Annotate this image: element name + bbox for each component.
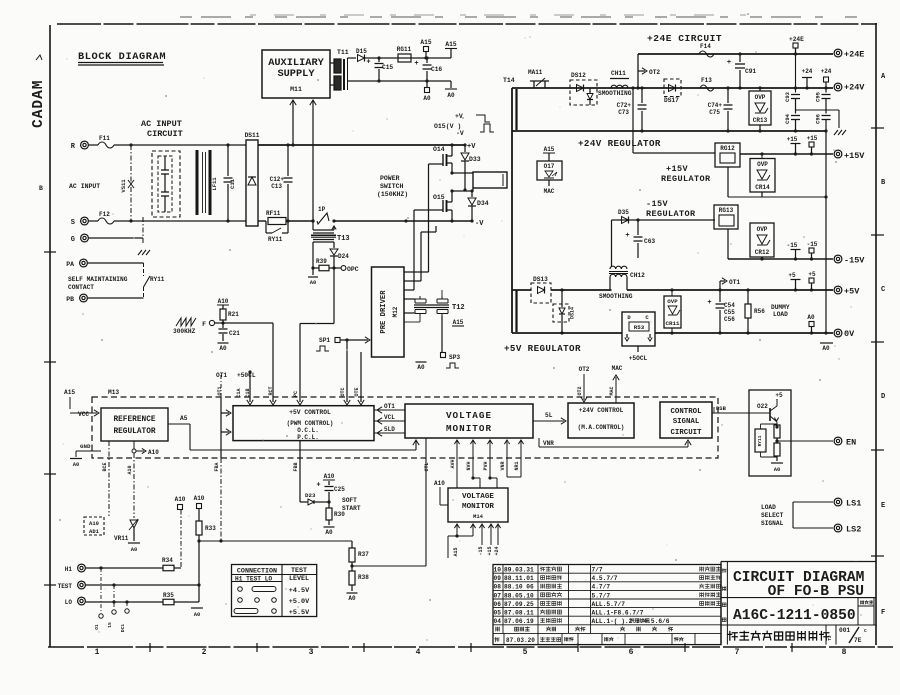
svg-text:A0: A0 bbox=[807, 314, 815, 321]
svg-text:DUMMY: DUMMY bbox=[771, 304, 790, 311]
svg-text:CONTROL: CONTROL bbox=[670, 408, 702, 416]
svg-text:H1: H1 bbox=[65, 566, 73, 573]
svg-text:A15: A15 bbox=[544, 146, 555, 153]
svg-text:OT1: OT1 bbox=[217, 386, 223, 395]
svg-text:+15: +15 bbox=[487, 546, 493, 555]
svg-text:+15: +15 bbox=[807, 135, 818, 142]
svg-text:+5: +5 bbox=[808, 271, 816, 278]
svg-text:AVH: AVH bbox=[450, 459, 456, 468]
svg-text:A0: A0 bbox=[774, 466, 781, 473]
svg-text:+24E CIRCUIT: +24E CIRCUIT bbox=[647, 33, 722, 44]
svg-text:A0: A0 bbox=[447, 92, 455, 99]
svg-text:AD1: AD1 bbox=[89, 528, 100, 535]
svg-text:C75: C75 bbox=[709, 109, 720, 116]
svg-text:LEVEL: LEVEL bbox=[289, 575, 309, 583]
svg-text:LOAD: LOAD bbox=[773, 311, 788, 318]
svg-text:O17: O17 bbox=[544, 163, 555, 170]
svg-text:C15: C15 bbox=[382, 64, 393, 71]
svg-text:D34: D34 bbox=[477, 200, 489, 207]
svg-text:OTC: OTC bbox=[340, 387, 346, 396]
svg-text:LO: LO bbox=[65, 599, 73, 606]
svg-text:VCL: VCL bbox=[384, 414, 395, 421]
svg-text:R37: R37 bbox=[358, 551, 369, 558]
svg-text:OT2: OT2 bbox=[579, 366, 590, 373]
svg-text:RG13: RG13 bbox=[719, 207, 734, 214]
svg-text:04: 04 bbox=[494, 618, 502, 625]
svg-text:R56: R56 bbox=[754, 308, 765, 315]
svg-text:CR13: CR13 bbox=[753, 117, 768, 124]
svg-text:6: 6 bbox=[629, 648, 634, 657]
svg-text:(150KHZ): (150KHZ) bbox=[377, 191, 408, 198]
svg-text:NVH: NVH bbox=[466, 461, 472, 470]
svg-text:C12+: C12+ bbox=[270, 176, 285, 183]
svg-text:FBB: FBB bbox=[293, 462, 299, 471]
svg-text:FBA: FBA bbox=[214, 462, 220, 471]
svg-text:B: B bbox=[881, 179, 886, 187]
svg-text:TEST: TEST bbox=[291, 567, 307, 575]
svg-text:A15: A15 bbox=[64, 389, 75, 396]
svg-text:A0: A0 bbox=[310, 279, 317, 286]
svg-text:E: E bbox=[881, 502, 885, 510]
svg-text:A10: A10 bbox=[434, 480, 445, 487]
svg-text:C16: C16 bbox=[431, 66, 442, 73]
svg-text:C91: C91 bbox=[745, 68, 756, 75]
svg-text:A10: A10 bbox=[148, 449, 159, 456]
svg-text:ALL.1-F8.6.7/7: ALL.1-F8.6.7/7 bbox=[592, 610, 644, 617]
svg-text:A15: A15 bbox=[420, 39, 431, 46]
svg-text:C73: C73 bbox=[618, 109, 629, 116]
svg-text:R: R bbox=[71, 143, 76, 151]
svg-text:87.08.11: 87.08.11 bbox=[504, 610, 534, 617]
svg-text:5: 5 bbox=[523, 648, 528, 657]
svg-text:A15: A15 bbox=[453, 319, 464, 326]
svg-text:DS17: DS17 bbox=[664, 97, 679, 104]
svg-text:+5OCL: +5OCL bbox=[629, 355, 648, 362]
svg-text:D15: D15 bbox=[356, 48, 367, 55]
svg-text:87.06.19: 87.06.19 bbox=[504, 618, 534, 625]
svg-text:F14: F14 bbox=[700, 43, 711, 50]
svg-text:R30: R30 bbox=[334, 511, 345, 518]
svg-text:MAC: MAC bbox=[544, 188, 555, 195]
svg-text:PRE DRIVER: PRE DRIVER bbox=[380, 290, 388, 334]
svg-text:SMOOTHING: SMOOTHING bbox=[599, 293, 633, 300]
svg-text:CTL: CTL bbox=[424, 462, 430, 471]
svg-text:+24: +24 bbox=[821, 68, 832, 75]
svg-text:A0: A0 bbox=[348, 595, 356, 602]
svg-text:SELF MAINTAINING: SELF MAINTAINING bbox=[68, 276, 128, 283]
svg-text:OVP: OVP bbox=[755, 94, 766, 101]
svg-text:A0: A0 bbox=[219, 345, 227, 352]
svg-text:F: F bbox=[202, 321, 206, 328]
svg-text:+5V: +5V bbox=[844, 287, 860, 297]
svg-text:A0: A0 bbox=[417, 364, 425, 371]
svg-text:SP1: SP1 bbox=[319, 337, 330, 344]
svg-text:C96: C96 bbox=[815, 114, 822, 124]
svg-text:G: G bbox=[71, 236, 75, 244]
svg-text:M14: M14 bbox=[473, 513, 484, 520]
svg-text:TEST: TEST bbox=[58, 583, 73, 590]
svg-text:R39: R39 bbox=[316, 258, 327, 265]
svg-text:+: + bbox=[414, 60, 418, 68]
svg-text:+15V: +15V bbox=[666, 164, 689, 174]
svg-text:88.05.10: 88.05.10 bbox=[504, 592, 534, 599]
svg-text:H1 TEST LO: H1 TEST LO bbox=[235, 576, 272, 583]
svg-text:A0: A0 bbox=[131, 546, 138, 553]
svg-text:+: + bbox=[625, 232, 629, 240]
svg-text:CIRCUIT: CIRCUIT bbox=[147, 129, 183, 139]
svg-text:F: F bbox=[881, 609, 885, 617]
svg-text:09: 09 bbox=[494, 575, 502, 582]
svg-text:D: D bbox=[881, 393, 885, 401]
svg-text:D33: D33 bbox=[469, 156, 481, 163]
svg-text:+5.0V: +5.0V bbox=[289, 598, 310, 606]
svg-text:0V: 0V bbox=[844, 329, 855, 339]
svg-text:O15(V ): O15(V ) bbox=[434, 123, 461, 130]
svg-text:ALL.5.7/7: ALL.5.7/7 bbox=[592, 601, 626, 608]
svg-text:SMOOTHING: SMOOTHING bbox=[598, 90, 632, 97]
svg-text:DS12: DS12 bbox=[571, 72, 586, 79]
svg-text:AC INPUT: AC INPUT bbox=[69, 183, 100, 190]
svg-text:4.5.7/7: 4.5.7/7 bbox=[592, 575, 618, 582]
svg-text:START: START bbox=[342, 505, 361, 512]
svg-text:+V: +V bbox=[455, 113, 463, 120]
svg-text:RG11: RG11 bbox=[397, 46, 412, 53]
svg-text:O.C.L.: O.C.L. bbox=[297, 427, 319, 434]
svg-text:-15: -15 bbox=[787, 242, 798, 249]
svg-text:06: 06 bbox=[494, 601, 502, 608]
svg-text:+4.5V: +4.5V bbox=[289, 587, 310, 595]
svg-text:8: 8 bbox=[842, 648, 847, 657]
svg-text:+24: +24 bbox=[494, 546, 500, 555]
svg-text:BLOCK DIAGRAM: BLOCK DIAGRAM bbox=[78, 51, 166, 63]
svg-text:(M.A.CONTROL): (M.A.CONTROL) bbox=[578, 424, 625, 431]
svg-text:C1A: C1A bbox=[236, 388, 242, 397]
svg-text:+5V REGULATOR: +5V REGULATOR bbox=[504, 343, 581, 354]
svg-text:C: C bbox=[864, 628, 867, 634]
svg-text:CADAM: CADAM bbox=[31, 79, 47, 128]
svg-text:SIGNAL: SIGNAL bbox=[761, 520, 784, 527]
svg-text:+24V REGULATOR: +24V REGULATOR bbox=[578, 138, 661, 149]
svg-text:C63: C63 bbox=[644, 238, 655, 245]
svg-text:T13: T13 bbox=[337, 235, 350, 243]
svg-text:A16C-1211-0850: A16C-1211-0850 bbox=[733, 608, 856, 624]
svg-text:LF11: LF11 bbox=[211, 177, 218, 191]
svg-text:D23: D23 bbox=[305, 492, 316, 499]
svg-text:POWER: POWER bbox=[380, 175, 400, 182]
svg-text:GND: GND bbox=[80, 443, 91, 450]
svg-text:10: 10 bbox=[494, 567, 502, 574]
svg-text:A10: A10 bbox=[89, 520, 99, 527]
svg-text:C55: C55 bbox=[724, 309, 735, 316]
svg-text:B: B bbox=[39, 185, 43, 192]
svg-text:DS14: DS14 bbox=[570, 307, 576, 319]
svg-text:C: C bbox=[881, 286, 885, 294]
svg-text:O1: O1 bbox=[94, 624, 100, 630]
svg-text:C21: C21 bbox=[229, 330, 240, 337]
svg-text:C56: C56 bbox=[724, 316, 735, 323]
svg-text:A10: A10 bbox=[218, 298, 229, 305]
svg-text:F11: F11 bbox=[99, 135, 110, 142]
svg-text:-V: -V bbox=[475, 220, 484, 228]
svg-text:RY11: RY11 bbox=[757, 435, 763, 446]
svg-text:SUPPLY: SUPPLY bbox=[277, 68, 315, 80]
svg-text:T14: T14 bbox=[503, 77, 515, 84]
svg-text:C93: C93 bbox=[784, 91, 791, 102]
svg-text:C25: C25 bbox=[334, 486, 345, 493]
svg-text:MA11: MA11 bbox=[528, 69, 543, 76]
svg-text:REGULATOR: REGULATOR bbox=[113, 428, 155, 436]
svg-text:M12: M12 bbox=[392, 306, 399, 317]
svg-text:REFERENCE: REFERENCE bbox=[113, 416, 155, 424]
svg-text:CH11: CH11 bbox=[611, 70, 626, 77]
svg-text:OPC: OPC bbox=[347, 266, 359, 273]
svg-text:D35: D35 bbox=[618, 209, 629, 216]
svg-text:C74+: C74+ bbox=[708, 102, 723, 109]
svg-text:87.09.25: 87.09.25 bbox=[504, 601, 534, 608]
svg-text:1P: 1P bbox=[318, 206, 326, 213]
svg-text:SP3: SP3 bbox=[449, 354, 460, 361]
svg-text:5.7/7: 5.7/7 bbox=[592, 592, 611, 599]
svg-text:AC INPUT: AC INPUT bbox=[141, 119, 182, 129]
svg-text:SOFT: SOFT bbox=[342, 497, 357, 504]
svg-text:07: 07 bbox=[494, 592, 502, 599]
svg-text:MONITOR: MONITOR bbox=[462, 503, 494, 511]
svg-text:VCC: VCC bbox=[78, 411, 89, 418]
svg-text:DS13: DS13 bbox=[533, 276, 548, 283]
svg-text:C11: C11 bbox=[229, 178, 236, 189]
svg-text:+15: +15 bbox=[787, 136, 798, 143]
svg-text:VOLTAGE: VOLTAGE bbox=[446, 410, 492, 421]
svg-text:7/7: 7/7 bbox=[592, 567, 603, 574]
svg-text:F13: F13 bbox=[701, 77, 712, 84]
svg-text:MAC: MAC bbox=[612, 365, 623, 372]
svg-text:C54: C54 bbox=[724, 302, 735, 309]
svg-text:+: + bbox=[316, 482, 320, 490]
svg-text:87.03.20: 87.03.20 bbox=[506, 637, 535, 644]
svg-text:OT1: OT1 bbox=[216, 372, 227, 379]
svg-text:R34: R34 bbox=[162, 557, 173, 564]
svg-text:R21: R21 bbox=[228, 311, 239, 318]
svg-text:VNR: VNR bbox=[543, 440, 554, 447]
svg-text:+5.5V: +5.5V bbox=[289, 609, 310, 617]
svg-text:DC1: DC1 bbox=[120, 624, 126, 632]
svg-text:+5: +5 bbox=[788, 272, 796, 279]
svg-text:+5V CONTROL: +5V CONTROL bbox=[289, 409, 331, 416]
svg-text:08: 08 bbox=[494, 584, 502, 591]
svg-text:OT1: OT1 bbox=[729, 279, 740, 286]
svg-text:C94: C94 bbox=[784, 113, 791, 124]
svg-text:A0: A0 bbox=[822, 345, 830, 352]
svg-text:T12: T12 bbox=[452, 304, 465, 312]
svg-text:DS11: DS11 bbox=[245, 132, 260, 139]
svg-text:RG12: RG12 bbox=[720, 145, 735, 152]
svg-text:VR11: VR11 bbox=[114, 535, 129, 542]
svg-text:S: S bbox=[71, 219, 75, 227]
svg-text:RY11: RY11 bbox=[268, 236, 283, 243]
svg-text:-15V: -15V bbox=[646, 199, 669, 209]
svg-text:OT2: OT2 bbox=[577, 386, 583, 395]
svg-text:A10: A10 bbox=[127, 465, 133, 474]
svg-text:7: 7 bbox=[735, 648, 740, 657]
svg-text:A15: A15 bbox=[453, 547, 459, 556]
svg-text:R33: R33 bbox=[205, 525, 216, 532]
svg-text:A0: A0 bbox=[194, 611, 201, 618]
svg-text:REGULATOR: REGULATOR bbox=[661, 174, 711, 184]
svg-text:+15V: +15V bbox=[844, 151, 865, 161]
svg-text:+50CL: +50CL bbox=[237, 372, 256, 379]
svg-text:D: D bbox=[627, 314, 631, 321]
svg-text:+24V CONTROL: +24V CONTROL bbox=[579, 407, 624, 414]
svg-text:OF FO-B PSU: OF FO-B PSU bbox=[768, 584, 864, 600]
svg-text:R38: R38 bbox=[358, 574, 369, 581]
svg-text:CIRCUIT: CIRCUIT bbox=[670, 429, 702, 437]
svg-text:89.03.31: 89.03.31 bbox=[504, 567, 534, 574]
svg-text:MAC: MAC bbox=[609, 386, 615, 395]
svg-text:NR1: NR1 bbox=[514, 461, 520, 470]
svg-text:+: + bbox=[366, 59, 370, 67]
svg-text:C95: C95 bbox=[815, 91, 822, 102]
svg-text:PA: PA bbox=[66, 261, 74, 268]
svg-text:REGULATOR: REGULATOR bbox=[646, 209, 696, 219]
svg-text:TJ: TJ bbox=[827, 635, 833, 641]
svg-text:A0: A0 bbox=[73, 461, 80, 468]
svg-text:OVP: OVP bbox=[757, 161, 768, 168]
svg-text:300KHZ: 300KHZ bbox=[173, 328, 196, 335]
svg-text:OTE: OTE bbox=[354, 387, 360, 396]
svg-text:A0: A0 bbox=[423, 95, 431, 102]
svg-text:+V: +V bbox=[467, 143, 476, 151]
svg-text:OT2: OT2 bbox=[649, 69, 660, 76]
svg-text:R35: R35 bbox=[163, 592, 174, 599]
svg-text:SIGNAL: SIGNAL bbox=[673, 418, 700, 426]
svg-text:OVP: OVP bbox=[667, 298, 678, 305]
svg-text:+24V: +24V bbox=[844, 83, 865, 93]
svg-text:OT1: OT1 bbox=[384, 403, 395, 410]
svg-text:O15: O15 bbox=[433, 194, 445, 201]
svg-text:2: 2 bbox=[202, 648, 207, 657]
svg-text:LS1: LS1 bbox=[846, 499, 861, 509]
svg-text:P.C.L.: P.C.L. bbox=[297, 434, 319, 441]
svg-text:R53: R53 bbox=[634, 324, 645, 331]
svg-text:C13: C13 bbox=[271, 183, 282, 190]
svg-text:RCT: RCT bbox=[268, 386, 274, 395]
svg-text:+24E: +24E bbox=[789, 36, 804, 43]
svg-text:(PWM CONTROL): (PWM CONTROL) bbox=[287, 420, 334, 427]
svg-text:A5: A5 bbox=[180, 415, 188, 422]
svg-text:PVH: PVH bbox=[483, 461, 489, 470]
svg-text:ALL.1-( ).2.3.4.5.6/6: ALL.1-( ).2.3.4.5.6/6 bbox=[592, 618, 670, 625]
svg-text:+5: +5 bbox=[775, 392, 783, 399]
svg-text:88.10 06: 88.10 06 bbox=[504, 584, 534, 591]
svg-text:RF11: RF11 bbox=[266, 210, 281, 217]
svg-text:DSB: DSB bbox=[716, 405, 727, 412]
svg-text:+: + bbox=[727, 59, 731, 67]
svg-text:7E: 7E bbox=[854, 637, 862, 644]
svg-text:+24: +24 bbox=[802, 68, 813, 75]
svg-text:VS11: VS11 bbox=[120, 179, 127, 193]
svg-text:PB: PB bbox=[66, 296, 74, 303]
svg-text:C: C bbox=[645, 314, 649, 321]
svg-text:-15V: -15V bbox=[844, 256, 865, 266]
svg-text:88.11.01: 88.11.01 bbox=[504, 575, 534, 582]
svg-text:SWITCH: SWITCH bbox=[380, 183, 404, 190]
svg-text:001: 001 bbox=[839, 627, 850, 634]
svg-text:A10: A10 bbox=[194, 495, 205, 502]
svg-text:CONTACT: CONTACT bbox=[68, 284, 94, 291]
svg-text:5L: 5L bbox=[545, 412, 553, 419]
svg-text:F12: F12 bbox=[99, 211, 110, 218]
svg-text:PC: PC bbox=[293, 391, 299, 397]
svg-text:M13: M13 bbox=[108, 389, 119, 396]
svg-text:A10: A10 bbox=[324, 473, 335, 480]
svg-text:+: + bbox=[707, 299, 711, 307]
svg-text:4: 4 bbox=[416, 648, 421, 657]
svg-text:+24E: +24E bbox=[844, 50, 864, 60]
svg-text:1: 1 bbox=[95, 648, 100, 657]
svg-text:MONITOR: MONITOR bbox=[446, 423, 492, 434]
svg-text:CONNECTION: CONNECTION bbox=[237, 568, 277, 576]
svg-text:05: 05 bbox=[494, 610, 502, 617]
svg-text:EN: EN bbox=[846, 438, 856, 448]
svg-text:CR12: CR12 bbox=[755, 249, 770, 256]
svg-text:M11: M11 bbox=[290, 86, 302, 93]
svg-text:T11: T11 bbox=[337, 49, 349, 56]
svg-text:15: 15 bbox=[107, 622, 113, 628]
svg-text:O14: O14 bbox=[433, 146, 445, 153]
svg-text:CR14: CR14 bbox=[755, 184, 770, 191]
svg-text:4.7/7: 4.7/7 bbox=[592, 584, 611, 591]
svg-text:3: 3 bbox=[309, 648, 314, 657]
svg-text:BCE: BCE bbox=[102, 462, 108, 471]
svg-text:CH12: CH12 bbox=[630, 272, 645, 279]
svg-text:A0: A0 bbox=[325, 529, 333, 536]
svg-text:RY11: RY11 bbox=[150, 276, 165, 283]
svg-text:-V: -V bbox=[456, 130, 464, 137]
svg-text:OVP: OVP bbox=[757, 226, 768, 233]
svg-text:A10: A10 bbox=[175, 496, 186, 503]
svg-text:D24: D24 bbox=[338, 253, 349, 260]
svg-text:CR11: CR11 bbox=[666, 320, 680, 327]
svg-text:O22: O22 bbox=[757, 403, 768, 410]
svg-text:A: A bbox=[881, 73, 886, 81]
svg-text:LOAD: LOAD bbox=[761, 504, 776, 511]
svg-text:SELECT: SELECT bbox=[761, 512, 784, 519]
svg-text:VNR: VNR bbox=[500, 461, 506, 470]
svg-text:-15: -15 bbox=[478, 546, 484, 555]
svg-text:A15: A15 bbox=[445, 41, 456, 48]
svg-text:C72+: C72+ bbox=[617, 102, 632, 109]
svg-text:5LD: 5LD bbox=[384, 426, 395, 433]
svg-text:-15: -15 bbox=[807, 241, 818, 248]
svg-text:VOLTAGE: VOLTAGE bbox=[462, 493, 494, 501]
svg-text:LS2: LS2 bbox=[846, 525, 861, 535]
